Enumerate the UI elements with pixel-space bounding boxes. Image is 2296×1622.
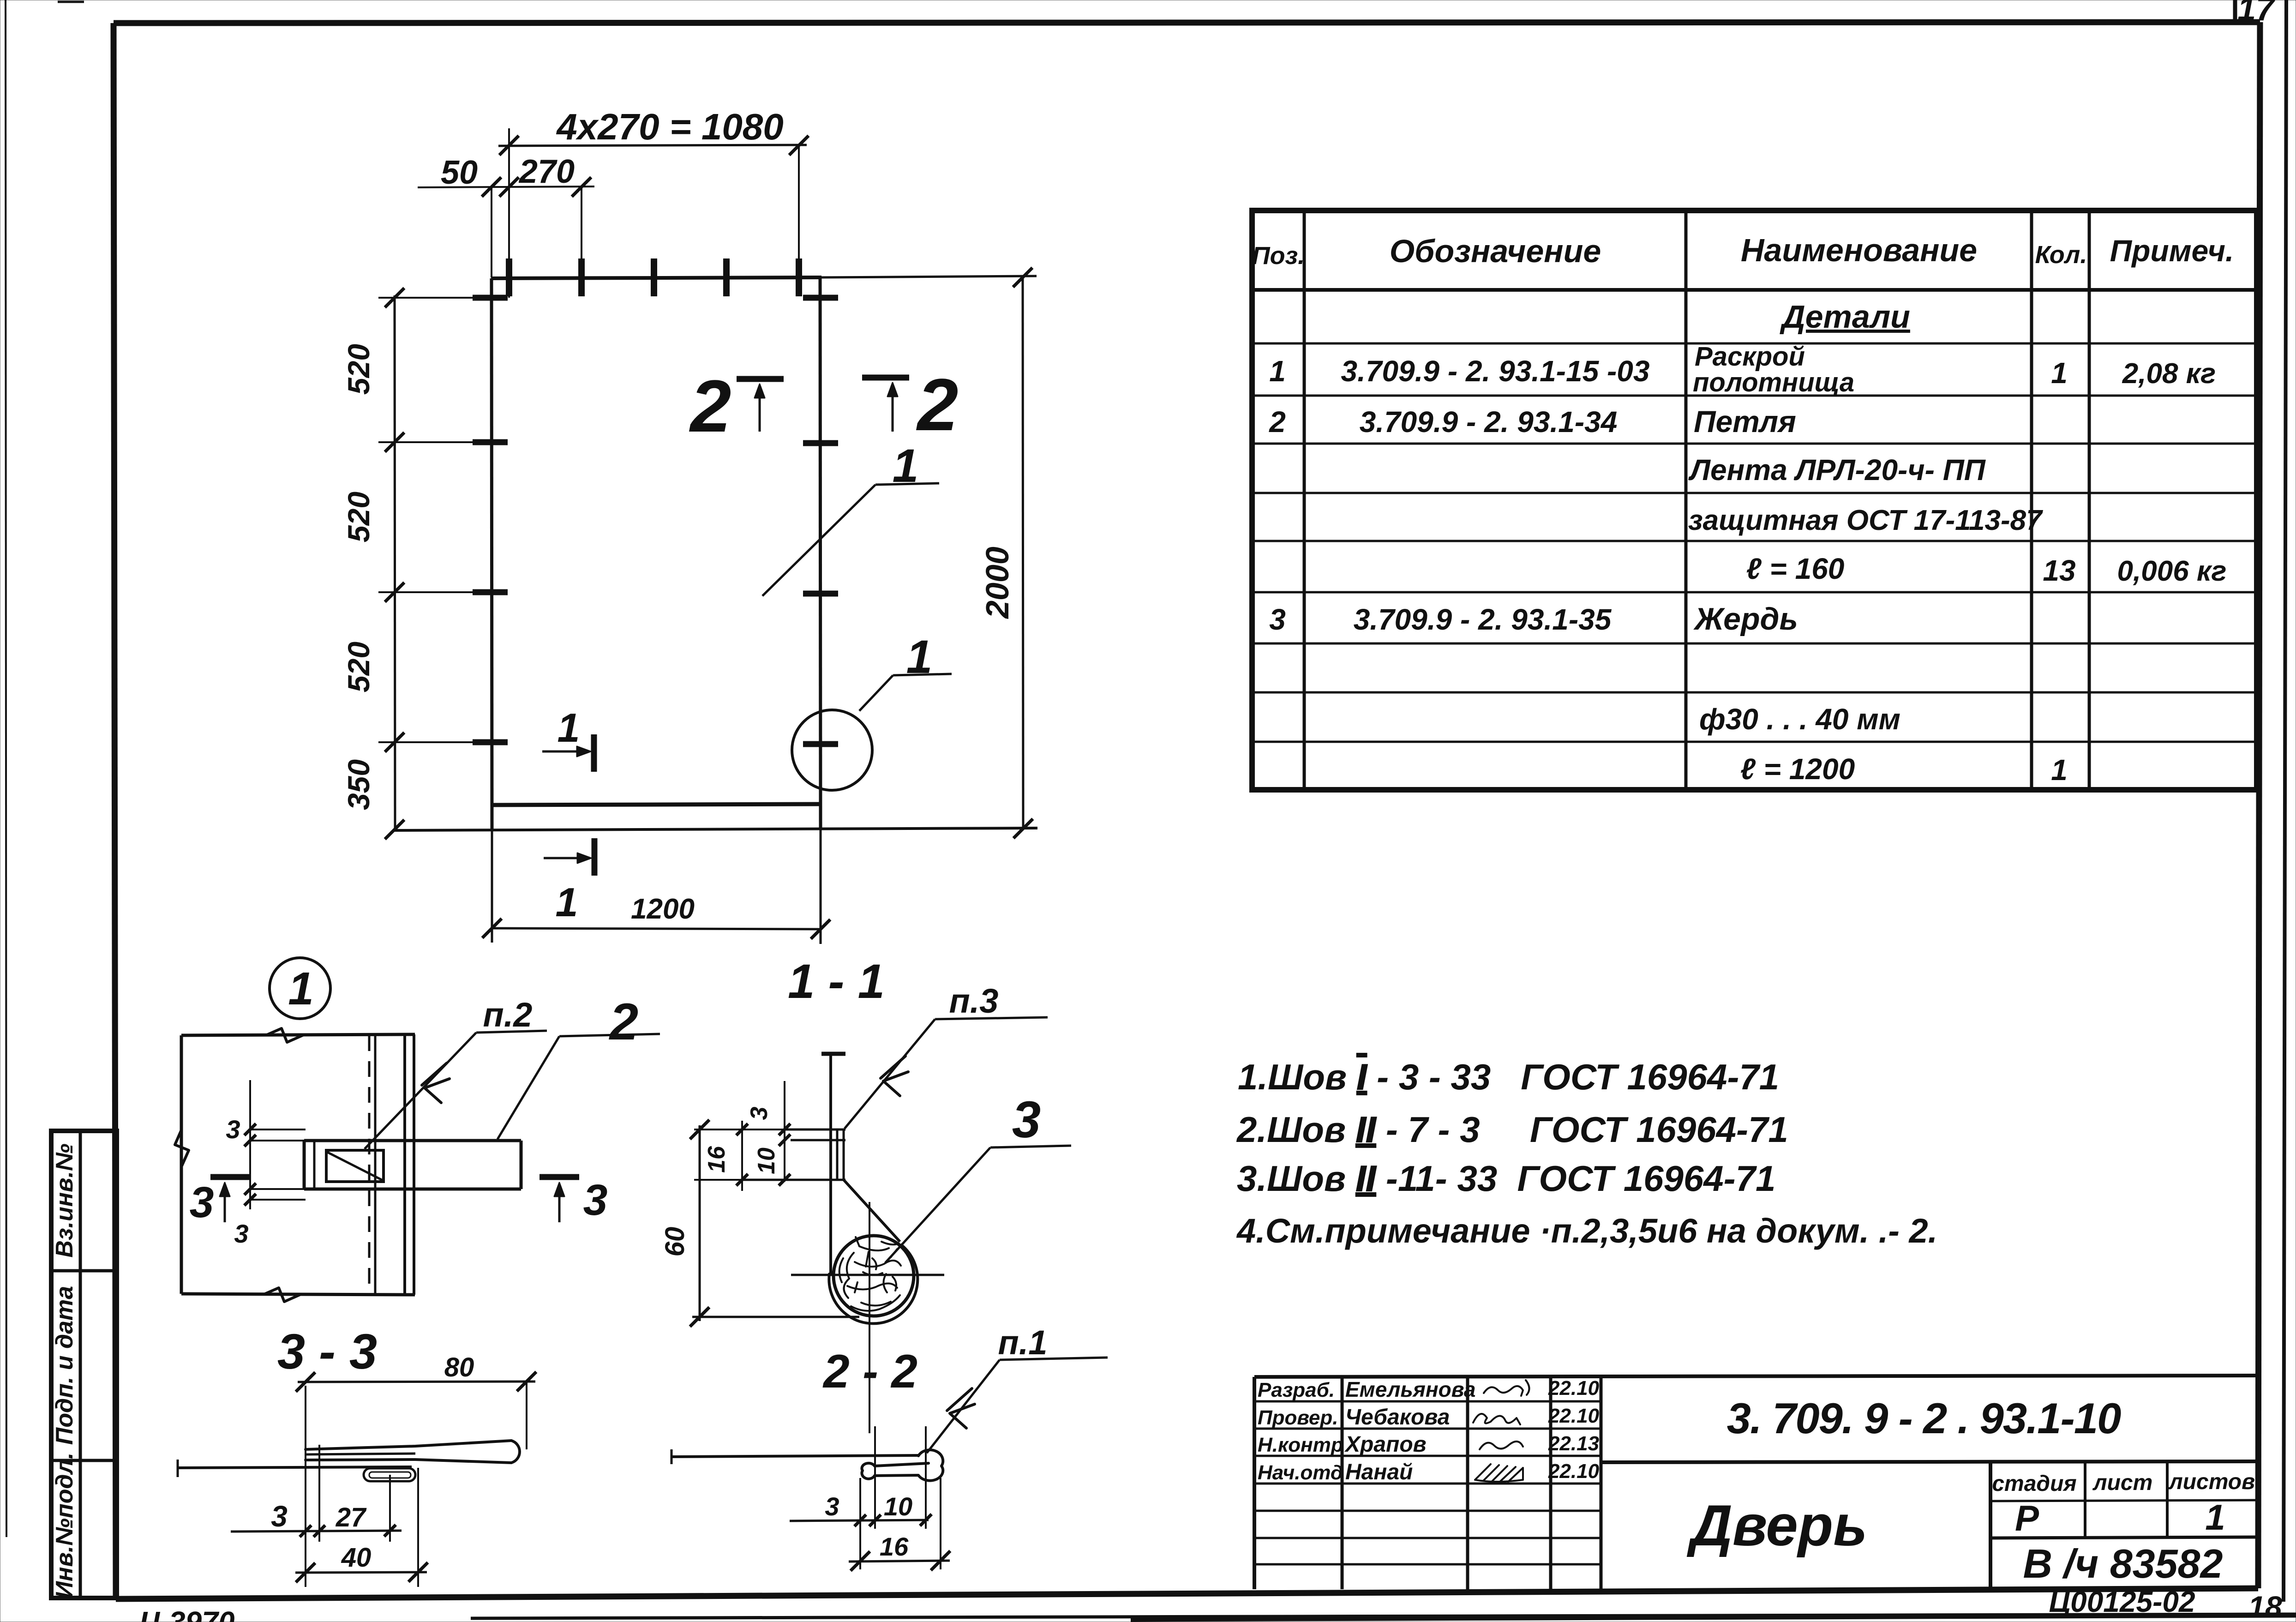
door bottom edge long extension line (393, 828, 1037, 830)
sheet bottom edge scan line (471, 1614, 2296, 1618)
svg-text:40: 40 (341, 1543, 372, 1573)
extension vertical door left edge up (491, 187, 492, 277)
door edge vertical in section (829, 1054, 832, 1275)
hinge band weld pocket rect (326, 1150, 384, 1182)
left dim extension lines (378, 297, 475, 299)
spec table row lines (1252, 342, 2257, 345)
strap side middle line (306, 1454, 415, 1454)
section 3-3 vertical ext x692 (318, 1445, 320, 1542)
leader p.2 break symbol (422, 1063, 450, 1103)
section 1-1 dim vertical x1700 (784, 1081, 785, 1182)
strap wrap arc around pole (829, 1245, 917, 1323)
sheet top-left tick (58, 1, 84, 3)
svg-text:2.Шов II - 7 - 3 ГОСТ 1696: 2.Шов II - 7 - 3 ГОСТ 16964-71 (1236, 1109, 1788, 1150)
door left edge extension down to 1200 dim (491, 829, 493, 943)
strap eye ring outer (364, 1468, 415, 1481)
svg-text:270: 270 (518, 153, 575, 190)
tape loop ticks on top edge (506, 258, 512, 296)
svg-text:Чебакова: Чебакова (1345, 1405, 1450, 1430)
title block left line (1253, 1377, 1256, 1589)
signature squiggle 2 (1473, 1414, 1520, 1424)
plan door panel bottom edge break (264, 1288, 301, 1302)
svg-text:3: 3 (583, 1176, 608, 1225)
drawing frame right line (2258, 22, 2260, 1588)
section mark 2 right bar (862, 375, 909, 381)
svg-text:520: 520 (342, 492, 376, 542)
svg-text:п.1: п.1 (998, 1323, 1048, 1362)
svg-text:3 - 3: 3 - 3 (277, 1323, 377, 1379)
dim 16 line (849, 1561, 950, 1562)
strap fold second line (791, 1139, 845, 1141)
drawing frame top line (114, 22, 2260, 23)
svg-text:3: 3 (1269, 603, 1286, 636)
section 2-2 vertical ext x1896 (874, 1426, 876, 1529)
section 3-3 vertical ext x1141 (526, 1382, 528, 1449)
dim 1200 oblique ticks (482, 919, 502, 938)
signature squiggle 4 hatched (1475, 1464, 1523, 1482)
leader 2 diagonal (498, 1036, 559, 1139)
strap fold top line (785, 1129, 845, 1131)
svg-text:1: 1 (1269, 354, 1286, 388)
title block stadia inner dividers (2084, 1462, 2086, 1538)
svg-text:Наименование: Наименование (1741, 232, 1977, 268)
svg-text:3. 709. 9 - 2 . 93.1-10: 3. 709. 9 - 2 . 93.1-10 (1727, 1394, 2122, 1442)
hinge band top edge (304, 1139, 521, 1142)
leader p.2 underline (476, 1031, 547, 1033)
strap eye ring inner (369, 1472, 411, 1478)
strap side right rounded cap (511, 1441, 520, 1463)
svg-text:2: 2 (916, 363, 959, 446)
title block stadia column left line (1989, 1462, 1992, 1589)
hinge band left end (303, 1141, 306, 1189)
plan dim 3 lower ext line b (249, 1199, 306, 1201)
section mark 1 lower arrow (544, 857, 583, 859)
svg-text:п.2: п.2 (483, 996, 533, 1034)
svg-text:Вз.инв.№: Вз.инв.№ (51, 1143, 78, 1257)
panel edge left serif (177, 1460, 179, 1477)
door edge top serif (821, 1052, 845, 1056)
svg-text:1: 1 (2051, 356, 2068, 390)
svg-text:Р: Р (2015, 1498, 2039, 1538)
svg-text:4x270 = 1080: 4x270 = 1080 (556, 106, 784, 147)
plan board line c right edge (413, 1034, 415, 1295)
svg-text:2,08 кг: 2,08 кг (2122, 358, 2216, 390)
svg-text:листов: листов (2168, 1470, 2255, 1494)
dim 80 line (298, 1382, 535, 1382)
leader p.2 diagonal (365, 1033, 476, 1149)
section 1-1 dim ext top (694, 1129, 785, 1130)
svg-text:Лента ЛРЛ-20-ч- ПП: Лента ЛРЛ-20-ч- ПП (1688, 453, 1986, 487)
title block outer top line (1254, 1376, 2258, 1377)
extension vertical second tick (581, 187, 582, 258)
svg-text:2 - 2: 2 - 2 (822, 1345, 917, 1398)
svg-text:защитная ОСТ 17-113-87: защитная ОСТ 17-113-87 (1688, 505, 2043, 536)
svg-text:22.10: 22.10 (1548, 1460, 1600, 1483)
top dim line 4x270 (498, 145, 807, 146)
left dimension line vertical (395, 295, 395, 830)
svg-text:3: 3 (746, 1106, 773, 1120)
leader p.1 diagonal (927, 1360, 1000, 1453)
plan dim 3 upper ext line b (250, 1140, 306, 1141)
dim line 1200 (492, 928, 821, 929)
svg-text:Примеч.: Примеч. (2110, 234, 2234, 268)
svg-text:2000: 2000 (979, 547, 1015, 619)
tape loop ticks on right edge (803, 295, 838, 301)
svg-text:стадия: стадия (1992, 1472, 2076, 1496)
section 3-3 vertical ext x845 (389, 1475, 391, 1542)
leader p.3 break symbol (881, 1056, 908, 1096)
hinge band inner left vertical (313, 1141, 316, 1189)
dim 3-27 ticks (300, 1525, 311, 1537)
leader p.3 diagonal (845, 1019, 935, 1129)
svg-text:Нанай: Нанай (1345, 1460, 1413, 1484)
side stamp divider 1 (51, 1269, 117, 1273)
section mark 2 left arrow (759, 392, 761, 432)
hinge band weld pocket diagonal (327, 1152, 383, 1180)
svg-text:Нач.отд: Нач.отд (1258, 1461, 1343, 1484)
section 3-3 vertical ext x662 (305, 1386, 306, 1587)
svg-text:520: 520 (342, 642, 376, 692)
svg-text:Петля: Петля (1694, 404, 1796, 439)
section 1-1 dim ticks (779, 1123, 790, 1135)
svg-text:1: 1 (556, 879, 578, 925)
plan board line b (403, 1034, 406, 1295)
hinge band right end (520, 1141, 523, 1189)
title block signature row lines (1254, 1400, 1601, 1403)
svg-text:Дверь: Дверь (1687, 1494, 1868, 1558)
section 2-2 vertical ext x2038 (940, 1478, 941, 1569)
section mark 1 upper bar (591, 734, 597, 772)
side stamp divider 2 (51, 1459, 117, 1462)
leader p.1 break symbol (947, 1388, 975, 1428)
dim 40 ticks (296, 1563, 315, 1582)
svg-text:17: 17 (2237, 0, 2276, 28)
svg-text:22.13: 22.13 (1548, 1432, 1599, 1455)
section 1-1 dim vertical x1608 (741, 1121, 743, 1191)
spec table header underline (1252, 288, 2257, 292)
plan door panel top edge break (267, 1028, 304, 1042)
plan section mark 3 left bar (210, 1174, 249, 1180)
svg-text:1: 1 (288, 963, 314, 1015)
hinge band bottom edge (304, 1188, 521, 1191)
svg-text:16: 16 (703, 1146, 730, 1173)
svg-text:3.709.9 - 2. 93.1-15 -03: 3.709.9 - 2. 93.1-15 -03 (1341, 354, 1650, 388)
top dim oblique ticks (499, 136, 519, 155)
panel edge line under strap (178, 1467, 412, 1468)
door top edge extension to 2000 dim (821, 276, 1037, 277)
pole wood grain (839, 1237, 901, 1311)
plan board dashed line (368, 1035, 371, 1294)
section 2-2 vertical ext x1864 (859, 1478, 861, 1569)
svg-text:Инв.№подл.: Инв.№подл. (51, 1453, 78, 1599)
detail callout circle around right lower tick (792, 710, 872, 790)
svg-text:ф30 . . . 40 мм: ф30 . . . 40 мм (1699, 703, 1900, 736)
title block signature column dividers (1341, 1377, 1344, 1589)
leader 3 pole underline (990, 1146, 1071, 1147)
section 1-1 dim ext bottom (692, 1316, 859, 1318)
section mark 2 right arrow (892, 391, 894, 432)
section mark 1 lower bar (592, 838, 598, 876)
svg-text:4.См.примечание ·п.2,3,5и6 на: 4.См.примечание ·п.2,3,5и6 на докум. .- … (1236, 1212, 1937, 1250)
leader 3 pole diagonal (885, 1147, 990, 1263)
section mark 1 upper arrow (542, 751, 582, 753)
svg-text:1200: 1200 (631, 893, 695, 925)
svg-text:1: 1 (558, 705, 580, 751)
title block doc cell bottom line (1601, 1461, 2258, 1462)
plan door panel bottom edge (181, 1294, 415, 1295)
svg-text:Н.контр: Н.контр (1258, 1434, 1343, 1456)
title block stadia row underline (1990, 1537, 2258, 1538)
svg-text:3: 3 (190, 1178, 214, 1227)
oblique ticks 50-270 (482, 177, 501, 197)
drawing frame bottom line (116, 1588, 2258, 1599)
strap diagonal to pole (844, 1180, 900, 1242)
svg-text:ℓ = 1200: ℓ = 1200 (1740, 752, 1855, 786)
plan section mark 3 left arrow (224, 1191, 226, 1222)
leader 2 underline (559, 1034, 660, 1036)
dim 40 line (295, 1572, 427, 1573)
plan dim 3 lower ext line a (249, 1188, 306, 1190)
svg-text:3.709.9 - 2. 93.1-35: 3.709.9 - 2. 93.1-35 (1354, 603, 1612, 636)
callout 1 lower leader (893, 674, 952, 675)
svg-text:80: 80 (444, 1352, 474, 1382)
top dim extension vertical left (508, 128, 510, 298)
svg-text:Детали: Детали (1780, 299, 1910, 335)
plan dim 3 upper ext line a (250, 1129, 306, 1130)
svg-text:10: 10 (884, 1492, 912, 1521)
svg-text:1: 1 (893, 439, 919, 492)
svg-text:22.10: 22.10 (1548, 1377, 1600, 1400)
plan board line a (374, 1035, 377, 1294)
svg-text:3.709.9 - 2. 93.1-34: 3.709.9 - 2. 93.1-34 (1360, 405, 1618, 439)
svg-text:0,006 кг: 0,006 кг (2117, 555, 2227, 587)
svg-text:1 - 1: 1 - 1 (788, 955, 885, 1009)
svg-text:3: 3 (234, 1219, 248, 1248)
svg-text:350: 350 (342, 759, 376, 810)
svg-text:ℓ = 160: ℓ = 160 (1746, 552, 1845, 585)
pole circle zherd (833, 1236, 914, 1316)
spec table column dividers (1303, 210, 1306, 790)
svg-text:27: 27 (336, 1502, 367, 1532)
signature squiggle 3 (1480, 1442, 1523, 1449)
svg-text:3: 3 (1012, 1091, 1041, 1148)
tape loop ticks on left edge (473, 295, 508, 301)
svg-text:Поз.: Поз. (1252, 242, 1305, 270)
section mark 2 left bar (737, 376, 784, 382)
flat strap main line (671, 1455, 919, 1457)
svg-text:Ц 3970: Ц 3970 (139, 1605, 235, 1622)
sheet edge scan line left (6, 0, 6, 1537)
side stamp outer box (51, 1131, 117, 1598)
signature squiggle 1 (1484, 1380, 1529, 1396)
dim 2000 oblique ticks (1013, 268, 1032, 287)
left dim oblique ticks (385, 288, 404, 307)
leader p.1 underline (1000, 1358, 1108, 1360)
svg-text:1: 1 (906, 631, 933, 683)
side stamp label column divider (79, 1131, 82, 1598)
dim line 50-270 (418, 186, 594, 187)
section 1-1 dim 60 vertical (699, 1125, 701, 1321)
dim 3-27 line (231, 1531, 402, 1532)
top dim extension vertical right (798, 147, 800, 282)
title block stadia header underline (1990, 1500, 2258, 1501)
svg-text:Емельянова: Емельянова (1345, 1377, 1476, 1401)
strap side top line (306, 1441, 511, 1449)
svg-text:В /ч 83582: В /ч 83582 (2023, 1541, 2223, 1586)
svg-text:лист: лист (2092, 1471, 2153, 1495)
svg-text:Подп. и дата: Подп. и дата (51, 1286, 78, 1445)
leader p.3 underline (935, 1017, 1048, 1019)
svg-text:22.10: 22.10 (1548, 1405, 1600, 1427)
svg-text:2: 2 (689, 365, 731, 447)
svg-text:13: 13 (2043, 554, 2075, 587)
plan dim ticks (244, 1123, 256, 1135)
svg-text:Разраб.: Разраб. (1258, 1379, 1335, 1401)
detail 1 balloon circle (270, 958, 330, 1019)
door right edge extension down to 1200 dim (820, 829, 822, 944)
svg-text:18: 18 (2248, 1590, 2282, 1622)
strap side bottom line (306, 1460, 511, 1463)
sheet right edge scan line (2284, 0, 2286, 1602)
plan section mark 3 right arrow (558, 1191, 561, 1222)
flat strap left serif (671, 1449, 673, 1464)
pole vertical axis line (869, 1202, 870, 1433)
dim 16 ticks (851, 1551, 870, 1571)
svg-text:1: 1 (2051, 753, 2068, 787)
svg-text:1: 1 (2205, 1497, 2225, 1538)
dim 80 ticks (296, 1372, 315, 1392)
svg-text:10: 10 (753, 1147, 780, 1174)
sheet number box vertical line (2233, 0, 2237, 24)
svg-text:Обозначение: Обозначение (1390, 233, 1601, 269)
door right edge line (820, 277, 821, 829)
section 2-2 vertical ext x2006 (925, 1426, 927, 1529)
svg-text:п.3: п.3 (949, 982, 999, 1020)
svg-text:3: 3 (271, 1500, 288, 1533)
svg-text:3.Шов II -11- 33 ГОСТ 16964-7: 3.Шов II -11- 33 ГОСТ 16964-71 (1237, 1158, 1775, 1199)
plan door panel left edge break (175, 1130, 189, 1167)
door left edge line (492, 278, 492, 829)
svg-text:полотнища: полотнища (1693, 367, 1854, 397)
dim line 2000 vertical (1023, 277, 1023, 829)
door top edge line (491, 277, 821, 278)
door bottom batten zherd top line (493, 804, 821, 805)
plan dim vertical line (249, 1080, 251, 1209)
strap fold right verticals (836, 1129, 839, 1180)
svg-text:Храпов: Храпов (1344, 1432, 1427, 1457)
drawing frame left line (114, 23, 116, 1599)
svg-text:50: 50 (441, 154, 478, 191)
svg-text:520: 520 (342, 344, 376, 395)
svg-text:Провер.: Провер. (1258, 1406, 1338, 1429)
svg-text:16: 16 (880, 1532, 909, 1561)
section 3-3 vertical ext x906 (417, 1468, 419, 1587)
svg-text:2: 2 (1269, 405, 1286, 439)
dim 3-10 line (790, 1520, 929, 1521)
svg-text:60: 60 (660, 1227, 690, 1257)
dim 3-10 ticks (854, 1514, 866, 1526)
section 1-1 dim ext mid (694, 1179, 742, 1181)
spec table outer border (1252, 210, 2257, 790)
svg-text:3: 3 (825, 1492, 839, 1521)
plan section mark 3 right bar (540, 1174, 579, 1180)
svg-text:Ц00125-02: Ц00125-02 (2049, 1585, 2195, 1618)
svg-text:2: 2 (609, 993, 638, 1051)
svg-text:1.Шов I - 3 - 33 ГОСТ 16964-: 1.Шов I - 3 - 33 ГОСТ 16964-71 (1238, 1057, 1779, 1097)
pole horizontal axis line (791, 1274, 944, 1276)
callout 1 upper leader (875, 483, 939, 485)
svg-text:Кол.: Кол. (2035, 241, 2087, 269)
strap fold bottom line (742, 1179, 845, 1181)
svg-text:Жердь: Жердь (1693, 601, 1798, 637)
plan door panel left edge (180, 1035, 183, 1294)
plan door panel top edge (181, 1034, 415, 1035)
flat strap folded eye outer (862, 1450, 943, 1481)
svg-text:3: 3 (226, 1115, 240, 1144)
